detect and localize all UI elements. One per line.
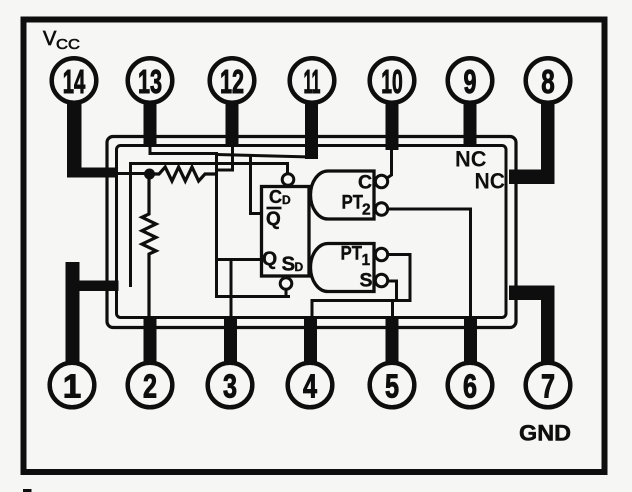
svg-text:5: 5: [385, 368, 399, 405]
wire: PT2 right then down to pin6: [388, 209, 471, 318]
VCC label: [43, 28, 80, 53]
svg-text:PT: PT: [341, 244, 363, 265]
svg-text:Q: Q: [262, 248, 277, 270]
svg-text:PT: PT: [342, 193, 364, 214]
pin 2 lead: [144, 317, 157, 362]
IC body inner outline: [117, 146, 507, 318]
pin 1 lead (thick L): [66, 262, 119, 363]
svg-text:D: D: [295, 260, 304, 274]
IC body outer outline: [107, 137, 516, 328]
svg-text:8: 8: [541, 63, 555, 100]
resistor R2 (vertical zigzag to pin2): [142, 179, 156, 317]
svg-text:C: C: [269, 187, 282, 207]
pin 7 lead (thick L): [509, 286, 555, 363]
pin 2: [128, 363, 173, 408]
S input bubble: [375, 274, 387, 286]
svg-text:9: 9: [464, 63, 477, 100]
svg-text:13: 13: [138, 63, 162, 100]
pin 13: [128, 58, 173, 103]
pin 4 lead: [304, 317, 317, 362]
wire: C bubble up to pin10: [387, 149, 392, 178]
svg-text:CC: CC: [56, 36, 80, 53]
flip-flop block U1: [262, 187, 310, 277]
gate G2 (bottom, points left): [311, 244, 375, 292]
svg-text:1: 1: [362, 252, 371, 269]
svg-text:S: S: [360, 270, 373, 292]
resistor R1 (horizontal zigzag): [149, 167, 218, 181]
wire: pin13 down-right, long vertical to bottom, right to SD: [150, 146, 290, 297]
pin 8: [526, 58, 571, 103]
pin 10: [370, 58, 415, 103]
pin 12 lead: [226, 103, 239, 147]
small print mark bottom-left: [23, 489, 32, 492]
pin 8 lead (thick L): [509, 103, 555, 184]
C input bubble: [375, 175, 387, 187]
pin 9: [448, 58, 493, 103]
pin 11 lead: [305, 103, 318, 159]
svg-text:V: V: [43, 28, 57, 50]
wire: pin5 up to rail: [391, 301, 394, 319]
gate G1 (top, points left): [311, 171, 375, 219]
junction dot: [144, 169, 155, 180]
pin 9 lead: [464, 103, 477, 147]
label CD: [269, 187, 291, 207]
pin 3: [208, 363, 253, 408]
wire: SD bubble stub: [285, 290, 288, 297]
PT2 input bubble: [375, 203, 387, 215]
wire: pin3 up to Q line: [230, 260, 233, 319]
pin 14: [52, 58, 97, 103]
CD bubble (top of block): [282, 174, 294, 186]
label SD: [282, 253, 304, 276]
svg-text:2: 2: [362, 202, 371, 219]
pin 3 lead: [224, 317, 237, 362]
pin 13 lead: [144, 103, 157, 147]
label Qbar with overline: [266, 208, 282, 230]
pin 11: [290, 58, 335, 103]
svg-text:12: 12: [220, 63, 244, 100]
svg-text:10: 10: [381, 63, 403, 100]
pin 5: [370, 363, 415, 408]
svg-text:D: D: [282, 193, 291, 207]
pin 10 lead: [386, 103, 399, 150]
pin 12: [210, 58, 255, 103]
wire: S bubble elbow to bottom rail: [388, 281, 397, 301]
svg-text:S: S: [282, 253, 296, 276]
svg-text:C: C: [358, 172, 372, 194]
svg-text:1: 1: [63, 368, 81, 405]
SD bubble (bottom of block): [280, 278, 292, 290]
pin 7: [526, 363, 571, 408]
wire: VCC bar to junction dot: [117, 172, 149, 175]
pin 6: [448, 363, 493, 408]
pin 6 lead: [464, 317, 477, 363]
svg-text:GND: GND: [519, 421, 571, 446]
svg-text:2: 2: [143, 368, 157, 405]
svg-text:7: 7: [541, 368, 555, 405]
wire: CD net - down from pin1 bar, up, right along y165, down to CD bubble: [131, 164, 288, 288]
svg-text:11: 11: [304, 63, 321, 100]
pin 1: [50, 363, 95, 408]
svg-text:6: 6: [463, 368, 477, 405]
pin 4: [288, 363, 333, 408]
svg-text:14: 14: [63, 63, 86, 100]
wire: pin11 left then down to Qbar: [217, 155, 312, 158]
wire: pin12 hook down-left: [217, 146, 233, 170]
label PT2: [342, 193, 371, 219]
PT1 input bubble: [375, 248, 387, 260]
label PT1: [341, 244, 371, 270]
svg-text:NC: NC: [475, 169, 506, 194]
pin 5 lead: [386, 318, 399, 362]
wire: Q output to left vertical: [217, 258, 262, 261]
svg-text:3: 3: [223, 368, 237, 405]
pin 14 lead (thick L): [67, 102, 118, 178]
wire: pin4 up and right to PT1: [312, 255, 410, 317]
svg-text:4: 4: [303, 368, 317, 405]
svg-text:Q: Q: [266, 209, 281, 230]
